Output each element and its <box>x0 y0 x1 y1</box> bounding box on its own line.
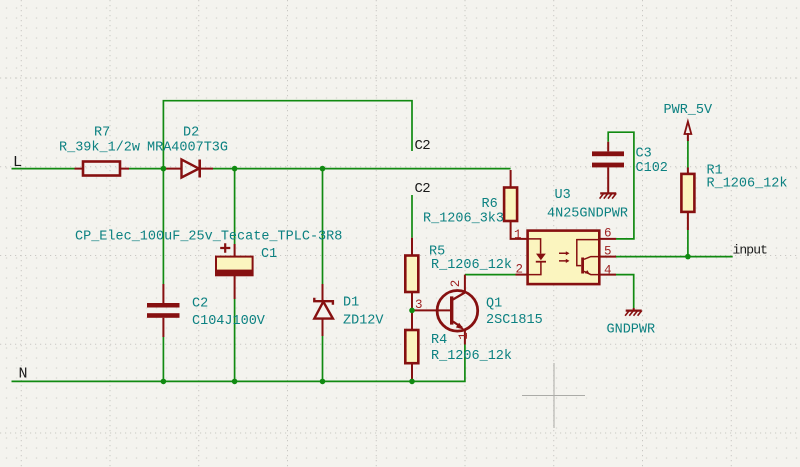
capacitor C1 (electrolytic) <box>216 243 253 299</box>
R1 reference and value labels <box>707 164 788 192</box>
junction at R1 bottom on input <box>685 254 691 260</box>
junction at C2 bottom on N <box>161 379 167 385</box>
svg-text:1: 1 <box>457 332 471 340</box>
svg-text:3: 3 <box>415 298 423 312</box>
svg-text:R4: R4 <box>431 333 447 348</box>
svg-text:D2: D2 <box>183 126 199 141</box>
svg-text:1: 1 <box>514 228 522 242</box>
power symbol PWR_5V <box>685 122 692 142</box>
wire D1 upper <box>322 169 324 284</box>
junction at D2 anode <box>161 166 167 172</box>
C2 reference and value labels <box>192 297 266 330</box>
svg-text:4: 4 <box>604 264 612 278</box>
wire C1 upper <box>234 169 236 244</box>
wire D1 lower <box>322 336 324 381</box>
svg-text:L: L <box>13 154 22 171</box>
svg-text:D1: D1 <box>343 296 359 311</box>
U3 pin 5 stub <box>599 256 616 258</box>
svg-text:6: 6 <box>604 227 612 241</box>
wire top feedback loop to C2 label <box>163 101 412 169</box>
svg-text:2: 2 <box>516 263 524 277</box>
svg-text:C2: C2 <box>415 181 431 197</box>
wire main rail D2 to R6 <box>213 168 511 170</box>
svg-text:4N25GNDPWR: 4N25GNDPWR <box>547 207 628 222</box>
U3 reference and value labels <box>547 188 628 222</box>
wire C2 label to R5 <box>411 195 413 238</box>
junction at C1 top <box>232 166 238 172</box>
R7 reference and value labels <box>59 126 140 156</box>
R4 reference and value labels <box>431 333 512 364</box>
capacitor C2 <box>147 284 180 337</box>
optocoupler U3 <box>528 231 600 285</box>
R6 reference and value labels <box>423 197 504 227</box>
wire PWR_5V to R1 <box>687 140 689 168</box>
svg-text:C1: C1 <box>261 247 277 262</box>
svg-text:R_1206_12k: R_1206_12k <box>431 349 512 364</box>
svg-text:R_1206_3k3: R_1206_3k3 <box>423 212 504 227</box>
svg-text:R_39k_1/2w: R_39k_1/2w <box>59 141 140 156</box>
junction node 3 R5/R4/base <box>409 308 415 314</box>
wire R7 to D2 junction <box>129 168 163 170</box>
resistor R5 <box>405 238 418 311</box>
wire L line <box>12 168 75 170</box>
resistor R7 <box>75 162 130 176</box>
wire C2 upper <box>162 169 164 284</box>
svg-text:C2: C2 <box>415 138 431 154</box>
svg-text:CP_Elec_100uF_25v_Tecate_TPLC-: CP_Elec_100uF_25v_Tecate_TPLC-3R8 <box>75 230 342 245</box>
svg-text:PWR_5V: PWR_5V <box>664 103 714 118</box>
svg-text:R7: R7 <box>94 126 110 141</box>
capacitor C3 <box>592 142 624 194</box>
svg-text:ZD12V: ZD12V <box>343 314 384 329</box>
C3 reference and value labels <box>636 147 668 177</box>
svg-text:U3: U3 <box>555 188 571 203</box>
svg-text:2: 2 <box>449 280 463 288</box>
svg-text:C102: C102 <box>636 161 668 176</box>
svg-text:2SC1815: 2SC1815 <box>486 313 543 328</box>
ground GNDPWR under U3 pin4 <box>625 308 642 316</box>
zener diode D1 <box>314 284 333 336</box>
resistor R6 <box>504 170 527 239</box>
wire C2 lower <box>162 337 164 381</box>
svg-text:C3: C3 <box>636 147 652 162</box>
wire C1 lower <box>234 299 236 381</box>
wire U3 pin6 to C3 <box>608 132 634 239</box>
wire N line <box>12 345 465 382</box>
junction at R4 bottom on N <box>409 379 415 385</box>
diode D2 <box>163 160 213 178</box>
junction at D1 top <box>320 166 326 172</box>
svg-text:C104J100V: C104J100V <box>192 314 266 329</box>
wire U3 pin4 to ground <box>616 275 634 308</box>
wire Q1 collector to U3 pin2 <box>465 274 516 276</box>
Q1 reference and value labels <box>486 297 543 329</box>
D2 reference and value labels <box>147 126 228 156</box>
U3 pin 6 stub <box>599 238 616 240</box>
svg-text:input: input <box>733 243 768 258</box>
junction at D1 bottom on N <box>320 379 326 385</box>
svg-text:MRA4007T3G: MRA4007T3G <box>147 141 228 156</box>
R5 reference and value labels <box>429 245 512 274</box>
svg-text:Q1: Q1 <box>486 297 502 312</box>
U3 pin 4 stub <box>599 274 616 276</box>
svg-text:R6: R6 <box>482 197 498 212</box>
svg-text:N: N <box>19 366 28 383</box>
resistor R4 <box>405 310 418 381</box>
junction at C1 bottom on N <box>232 379 238 385</box>
U3 pin 2 stub <box>516 274 528 276</box>
resistor R1 <box>681 168 694 231</box>
wire R1 to input <box>687 230 689 257</box>
svg-text:R_1206_12k: R_1206_12k <box>707 177 788 192</box>
transistor Q1 <box>414 275 478 345</box>
svg-text:R_1206_12k: R_1206_12k <box>431 258 512 273</box>
svg-text:GNDPWR: GNDPWR <box>607 323 656 338</box>
svg-text:5: 5 <box>604 245 612 259</box>
cursor crosshair <box>522 363 585 428</box>
ground GNDPWR under C3 <box>600 193 617 198</box>
D1 reference and value labels <box>343 296 384 329</box>
svg-text:C2: C2 <box>192 297 208 312</box>
C1 reference and value labels <box>75 230 342 263</box>
wire input net <box>616 256 733 258</box>
